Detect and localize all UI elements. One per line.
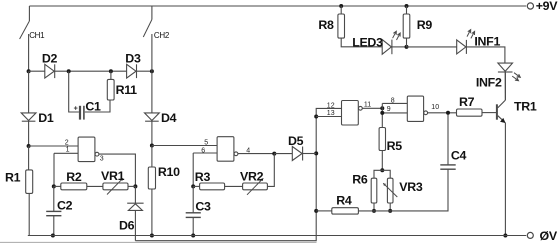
svg-text:1: 1 [66,147,70,154]
wire TR1 collector to INF2 [504,73,506,101]
wire D3 node down to D4 [151,71,153,113]
wire pin 1 input [54,152,78,154]
wire pin 9 input [382,112,407,114]
svg-text:R4: R4 [336,193,352,207]
switch CH2 blade [143,20,152,38]
wire R8 top stub [340,6,342,14]
wire R10 bottom to 0V rail [151,189,153,236]
wire pin4 node to D5 anode [274,153,292,155]
wire pin 6 input [193,152,217,154]
node junction pin13 [314,115,318,119]
wire C3 top lead [192,186,194,212]
op-amp U1d (NAND gate pins 8,9,10) [407,96,427,121]
diode D1 [21,113,36,121]
wire R8 bottom to LED3 [341,38,382,47]
wire R9 top stub [406,6,408,14]
node junction C2/rail [51,234,55,238]
wire to R2 left [54,185,61,187]
svg-text:13: 13 [327,110,335,117]
INF1 light arrow 1 [467,30,471,37]
svg-text:R2: R2 [66,170,82,184]
svg-text:D4: D4 [161,111,177,125]
wire R9 bottom stub [406,38,408,47]
svg-text:C2: C2 [57,198,73,212]
svg-text:C4: C4 [451,149,467,163]
wire R7 to TR1 base [482,112,497,114]
resistor R4 [332,208,359,214]
resistor R8 [338,14,345,38]
svg-text:D3: D3 [125,52,141,66]
node junction R5/R6/VR3 [380,168,384,172]
svg-text:VR2: VR2 [240,170,264,184]
wire bridge R6/VR3 tops [374,170,390,178]
svg-text:5: 5 [204,139,208,146]
transistor TR1 emitter arrow [501,119,505,123]
resistor R10 [148,167,155,189]
wire pin1 column down to R2 [53,153,55,186]
wire D2 node down to D1 [28,71,30,113]
diode D3 [127,64,137,78]
node junction LED3/R9/INF1 [405,45,409,49]
resistor R1 [26,170,33,194]
capacitor C3 [186,213,201,218]
INF1 light arrow 2 [471,31,475,38]
resistor R3 [200,183,225,190]
node junction R3/C3/pin6 [191,184,195,188]
wire C2 top lead [53,186,55,211]
svg-text:R11: R11 [116,83,138,97]
node junction pin5 branch [150,144,154,148]
wire INF2 to TR1 collector [504,72,506,100]
node junction R4 left [314,209,318,213]
node junction C3/rail [191,234,195,238]
wire pin 3 output to VR1 right [99,154,135,186]
wire C3 bottom lead [192,217,194,235]
svg-text:VR1: VR1 [101,169,125,183]
svg-text:+9V: +9V [536,0,559,13]
resistor R7 [457,109,483,116]
svg-text:LED3: LED3 [352,36,383,50]
node junction R10/rail [150,234,154,238]
infrared LED INF1 [457,40,467,54]
svg-text:R3: R3 [195,170,211,184]
potentiometer VR3 [387,178,393,203]
potentiometer VR2 [243,183,268,190]
wire C2 bottom lead [53,216,55,236]
wire C1 left lead [69,71,79,112]
wire VR1 right [128,185,135,187]
node junction C1 branch [67,69,71,73]
op-amp U1c (NAND gate pins 12,13,11) [342,101,363,126]
wire CH2 to D3 node [151,34,153,71]
node junction pin4/D5/VR2 [272,152,276,156]
node junction TR1 emitter/rail [503,234,507,238]
svg-text:3: 3 [100,156,104,163]
wire to R4 left [316,210,332,212]
wire R3 to VR2 [225,185,243,187]
LED3 light arrow 1 [393,31,397,38]
wire R5 bottom [381,151,383,171]
wire INF1 to INF2 [466,47,505,63]
potentiometer VR1 [103,183,128,190]
svg-text:CH2: CH2 [154,31,170,40]
wire D6 node loop to pin 12 [135,108,341,240]
svg-text:INF2: INF2 [476,76,502,90]
node junction VR3 bottom [388,209,392,213]
wire pin 13 input [316,116,341,118]
node junction pin2 branch [27,144,31,148]
wire R11 top stub [110,71,112,79]
wire pin6 column down to R3 [192,153,194,186]
LED LED3 [382,40,392,55]
wire pin 4 output [238,153,274,155]
wire pin 10 output to R7 [428,112,457,114]
wire R4 right to C4 bottom [358,169,448,211]
diode D4 [145,113,160,121]
capacitor C4 [440,165,455,169]
wire R9 node to INF1 [407,46,457,48]
infrared LED INF2 [498,63,513,72]
node junction VR1/D6 [133,184,137,188]
node junction pin11/pin8 [380,106,384,110]
node junction D5 cathode [314,151,318,155]
svg-text:D2: D2 [42,52,58,66]
wire C1 right lead to R11 [85,100,110,112]
svg-text:R8: R8 [318,18,334,32]
svg-text:TR1: TR1 [514,99,537,113]
svg-text:10: 10 [431,104,439,111]
wire to D6 cathode [134,186,136,203]
svg-text:R7: R7 [459,95,475,109]
node junction C4/R7 [446,111,450,115]
svg-text:11: 11 [364,102,371,109]
INF2 light arrow 2 [512,76,518,81]
capacitor C1 (electrolytic) [80,106,84,120]
wire pin 2 input [29,145,79,147]
node junction R11 top [109,69,113,73]
wire C4 top lead [447,113,449,165]
svg-text:D5: D5 [288,134,304,148]
svg-text:R5: R5 [387,139,403,153]
label C1 plus sign [74,106,78,110]
capacitor C2 [46,211,61,215]
wire TR1 emitter to 0V rail [504,123,506,236]
wire to R1 top [28,146,30,170]
svg-text:R9: R9 [417,18,433,32]
wire D5 cathode to node column [303,153,317,155]
wire VR3 bottom stub [389,203,391,211]
wire R1 bottom to 0V rail [28,193,29,235]
terminal 0V [527,232,533,238]
wire node column to R5 [381,103,383,127]
diode D6 [127,203,143,210]
wire D2-D3 row [29,70,152,72]
svg-text:C3: C3 [195,200,211,214]
op-amp U1b (NAND gate pins 5,6,4) [217,137,238,162]
wire D6 anode down [134,210,136,240]
diode D5 [292,147,302,161]
node junction R6 bottom [372,209,376,213]
svg-text:R1: R1 [5,171,21,185]
svg-text:6: 6 [201,147,205,154]
wire CH1 top stub [28,6,30,21]
svg-text:C1: C1 [85,99,101,113]
wire down to VR2 right [267,154,274,187]
node junction R8 top [339,4,343,8]
wire R6 bottom stub [373,203,375,211]
wire pin 11 output [362,107,382,109]
terminal +9V [527,3,533,9]
svg-text:D6: D6 [119,218,135,232]
svg-text:D1: D1 [38,111,54,125]
transistor TR1 (NPN) [497,100,506,123]
svg-text:INF1: INF1 [474,34,500,48]
wire pin 8 input [382,102,407,104]
wire to R3 left [193,185,199,187]
wire D1 to pin2 node [28,121,30,146]
node junction CH1/D2/D1 [27,69,31,73]
wire CH1 to D2 node [28,34,30,71]
border bottom edge [0,241,317,243]
resistor R6 [371,178,377,203]
diode D2 [45,64,55,78]
INF2 light arrow 1 [514,73,520,78]
wire pin 5 input [152,145,217,147]
LED3 light arrow 2 [397,33,401,40]
svg-text:VR3: VR3 [399,180,423,194]
svg-text:8: 8 [391,98,395,105]
svg-text:12: 12 [327,103,335,110]
node junction R9 top [405,4,409,8]
wire R2 to VR1 [87,185,103,187]
wire 0V bottom rail [28,235,526,237]
svg-text:2: 2 [65,140,69,147]
node junction R2/C2/pin1 [52,184,56,188]
wire D4 to pin5 node [151,121,153,145]
resistor R2 [61,183,87,190]
wire to R10 top [151,146,153,168]
wire LED3 cathode to R9 node [392,46,407,48]
resistor R9 [403,14,410,38]
svg-text:R6: R6 [352,172,368,186]
svg-text:CH1: CH1 [29,31,45,40]
resistor R5 [379,128,385,151]
resistor R11 [107,79,114,100]
switch CH1 blade [20,21,30,39]
svg-text:R10: R10 [158,165,180,179]
svg-text:9: 9 [387,106,391,113]
svg-text:ØV: ØV [540,229,558,243]
op-amp U1a (NAND gate pins 1,2,3) [78,137,99,162]
node junction CH2/D3/D4 [150,69,154,73]
node junction pin9 [380,111,384,115]
wire CH2 top stub [151,6,153,20]
wire +9V top rail [29,5,526,7]
